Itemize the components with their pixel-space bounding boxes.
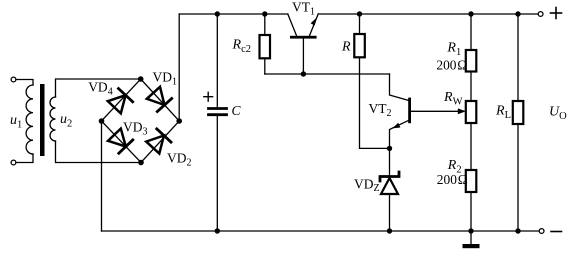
zener diode VDZ <box>380 172 399 194</box>
potentiometer RW wiper arrow <box>458 108 466 114</box>
wire: VT1 base horizontal line (Rc2 to VT2 collector) <box>265 73 390 75</box>
ground symbol <box>463 231 480 248</box>
diode VD4 (left node to top node) <box>108 89 133 114</box>
wire: RL top lead <box>517 14 519 101</box>
node: RL bottom rail junction <box>515 228 520 233</box>
node: zener bottom rail junction <box>387 228 392 233</box>
svg-text:VD1: VD1 <box>153 69 178 87</box>
wire: VT2 base lead to RW wiper <box>411 110 459 112</box>
resistor Rc2 <box>260 35 271 58</box>
node: capacitor top rail junction <box>215 11 220 16</box>
diode VD3 (left node to bottom node) <box>108 129 133 154</box>
node: VT1 base junction <box>301 71 306 76</box>
potentiometer RW <box>466 101 477 123</box>
svg-text:Rc2: Rc2 <box>232 37 251 55</box>
svg-text:R1: R1 <box>446 41 461 59</box>
svg-text:RW: RW <box>443 90 463 108</box>
resistor RL <box>513 101 524 124</box>
wire: VT2 collector lead <box>390 74 409 100</box>
wire: bridge edge left-bottom <box>102 121 142 163</box>
wire: R top lead <box>359 14 361 34</box>
terminal: primary top input circle <box>11 77 16 82</box>
node: bridge left junction <box>99 118 105 124</box>
resistor R1 <box>466 50 477 72</box>
node: VT2 emitter / zener junction <box>387 146 392 151</box>
node: divider top rail junction <box>468 11 473 16</box>
svg-text:RL: RL <box>495 104 511 122</box>
svg-text:VD2: VD2 <box>167 150 192 168</box>
node: bridge top junction <box>138 76 144 82</box>
diode VD2 (bottom node to right node) <box>146 129 171 154</box>
transformer core <box>40 84 45 156</box>
wire: bridge left node down to bottom rail <box>101 121 103 231</box>
svg-text:VT2: VT2 <box>369 101 392 119</box>
terminal: output negative circle <box>539 229 544 234</box>
wire: RW to R2 <box>470 123 472 170</box>
wire: Rc2 top lead <box>264 14 266 35</box>
diode VD1 (top node to right node) <box>147 87 172 112</box>
wire: primary top lead <box>16 80 33 86</box>
wire: divider chain top lead <box>470 14 472 50</box>
wire: bridge right node to top rail <box>178 14 180 121</box>
wire: bridge edge left-top <box>102 79 141 121</box>
svg-text:R: R <box>341 40 351 55</box>
resistor R2 <box>466 170 477 192</box>
winding: transformer secondary u2 coil <box>50 97 56 141</box>
wire: bridge edge bottom-right <box>141 121 179 163</box>
wire: bridge edge top-right <box>141 79 180 121</box>
transistor VT1 collector lead <box>288 14 297 35</box>
wire: top rail left segment (bridge + output to VT1 collector) <box>179 13 288 15</box>
wire: capacitor top lead <box>216 14 218 107</box>
transistor VT1 base bar <box>290 36 317 39</box>
svg-text:200Ω: 200Ω <box>437 172 468 187</box>
svg-text:VDZ: VDZ <box>354 177 380 195</box>
transistor VT2 emitter lead with arrow <box>390 121 409 149</box>
node: bridge right junction <box>176 118 182 124</box>
svg-text:VD4: VD4 <box>88 79 113 97</box>
wire: primary bottom lead <box>16 154 33 163</box>
terminal: primary bottom input circle <box>11 160 16 165</box>
wire: capacitor bottom lead <box>216 116 218 231</box>
output plus sign <box>551 8 562 19</box>
capacitor C plates <box>209 109 227 115</box>
node: capacitor bottom rail junction <box>215 228 220 233</box>
wire: R1 to RW <box>470 72 472 102</box>
node: Rc2 top rail junction <box>262 11 267 16</box>
wire: zener VDZ leads <box>389 148 391 231</box>
wire: secondary bottom lead to bridge bottom node <box>56 141 142 163</box>
wire: R2 bottom lead <box>470 192 472 231</box>
node: RL top rail junction <box>515 11 520 16</box>
svg-text:UO: UO <box>549 105 567 123</box>
resistor R <box>354 34 365 57</box>
transistor VT2 base bar <box>408 98 411 124</box>
terminal: output positive circle <box>538 12 543 17</box>
svg-text:200Ω: 200Ω <box>436 58 467 73</box>
wire: bottom rail <box>102 230 540 232</box>
wire: top rail right segment (VT1 emitter to + terminal) <box>318 13 538 15</box>
svg-text:VD3: VD3 <box>123 120 148 138</box>
svg-text:VT1: VT1 <box>292 0 315 18</box>
wire: VT1 base down lead <box>302 39 304 74</box>
svg-text:C: C <box>232 103 242 118</box>
wire: secondary top lead to bridge top node <box>56 79 141 97</box>
output minus sign <box>551 231 562 233</box>
transistor VT1 emitter lead with arrow <box>310 14 319 35</box>
node: divider bottom rail junction <box>468 228 473 233</box>
node: bridge bottom junction <box>138 160 144 166</box>
winding: transformer primary u1 coil <box>26 85 33 154</box>
svg-text:u1: u1 <box>10 113 22 131</box>
svg-text:u2: u2 <box>60 112 72 130</box>
wire: R bottom lead down and right to VT2 emitter node <box>360 57 390 148</box>
node: R top rail junction <box>357 11 362 16</box>
wire: Rc2 bottom lead <box>264 58 266 74</box>
capacitor plus polarity mark <box>204 92 213 101</box>
wire: RL bottom lead <box>517 124 519 231</box>
